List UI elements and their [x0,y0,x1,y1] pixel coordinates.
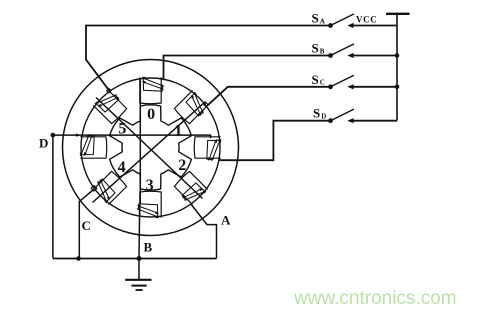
stator pole left (phase D) [80,137,106,158]
winding coil on lower-right (phase A) pole [182,183,207,201]
switch label SD [313,106,326,121]
svg-text:S: S [312,41,319,56]
winding coil on upper-left (phase A) pole [94,95,119,113]
wire: switch SB to top pole winding [164,56,331,80]
svg-text:S: S [313,106,320,121]
svg-text:www.cntronics.com: www.cntronics.com [293,288,457,309]
wire: switch SC to upper-right pole winding [208,87,331,106]
arrow on phase D axis at left pole winding [76,133,80,136]
switch label SC [312,72,325,87]
svg-text:1: 1 [174,122,182,139]
phase B axis line (vertical, top pole to bottom pole, continues to node B) [139,80,141,204]
stator pole right (phase D) [194,137,220,158]
junction dot at node D [51,133,56,138]
wire: switch SA to upper-left pole winding [86,26,331,93]
svg-text:2: 2 [178,157,186,174]
VCC supply rail (vertical) [396,14,398,121]
switch SD (blade and contacts) [328,109,397,123]
wire: switch SD to right pole winding [219,121,331,161]
switch label SA [312,11,325,26]
watermark www.cntronics.com [293,288,457,309]
junction dot at node C on bottom rail [76,256,81,261]
stator pole upper-right (phase C) [174,90,207,123]
svg-text:A: A [221,213,231,228]
svg-text:D: D [321,113,326,121]
svg-text:B: B [144,240,153,255]
junction dot at node B on bottom rail [137,256,142,261]
svg-text:VCC: VCC [356,15,377,25]
wire: bottom pole to node B drop [138,203,141,259]
VCC supply bar (top tee) [386,13,410,15]
phase C axis line (45-deg diagonal through rotor) [93,102,206,203]
rotor tooth label 0 [147,106,155,123]
svg-text:D: D [39,136,48,151]
motor stator outer circle [63,60,239,236]
ground symbol [125,259,151,291]
rotor tooth label 5 [118,120,126,137]
svg-text:C: C [320,79,325,87]
stator pole lower-right (phase A) [174,171,207,204]
stator pole top (phase B) [140,77,161,103]
switch SB (blade and contacts) [328,44,397,58]
wire: lower-right pole winding to node A drop [191,204,217,259]
phase D axis line (horizontal from node D through rotor to right pole) [53,135,211,138]
stator pole lower-left (phase C) [93,171,126,204]
phase A axis line (135-deg diagonal through rotor) [96,98,203,199]
motor stator inner circle (yoke bore) [81,78,220,217]
rotor tooth label 1 [174,122,182,139]
switch SC (blade and contacts) [328,75,397,89]
rotor tooth label 4 [118,159,126,176]
junction dot on VCC rail at SC row [395,85,400,90]
switch label SB [312,41,325,56]
rotor tooth label 2 [178,157,186,174]
node label A [221,213,231,228]
node label C [82,218,91,233]
winding coil on bottom (phase B) pole [137,204,160,218]
stator pole upper-left (phase A) [93,90,126,123]
wire: node D down the left side to bottom rail [52,135,54,258]
node label D [39,136,48,151]
svg-text:0: 0 [147,106,155,123]
rotor tooth label 3 [146,177,154,194]
bottom common rail wire [53,258,217,260]
VCC label [356,15,377,25]
svg-text:S: S [312,11,319,26]
svg-text:3: 3 [146,177,154,194]
svg-text:A: A [320,17,325,25]
rotor (6-tooth gear) [110,105,192,190]
svg-text:B: B [320,47,325,55]
winding coil on lower-left (phase C) pole [98,179,116,204]
svg-text:C: C [82,218,91,233]
node label B [144,240,153,255]
connector loop at SC tap on upper-right winding [204,103,208,107]
wire: lower-left pole winding to node C drop [79,190,93,259]
winding coil on upper-right (phase C) pole [186,91,204,116]
connector loop at SA tap on upper-left winding [107,88,112,93]
junction dot on VCC rail at SB row [395,53,400,58]
stator pole bottom (phase B) [140,191,161,217]
connector loop at node C tap on lower-left winding [91,186,97,191]
winding coil on right (phase D) pole [207,139,221,162]
winding coil on top (phase B) pole [142,77,165,91]
switch SA (blade and contacts) [328,14,397,28]
winding coil on left (phase D) pole [80,134,94,157]
svg-text:S: S [312,72,319,87]
